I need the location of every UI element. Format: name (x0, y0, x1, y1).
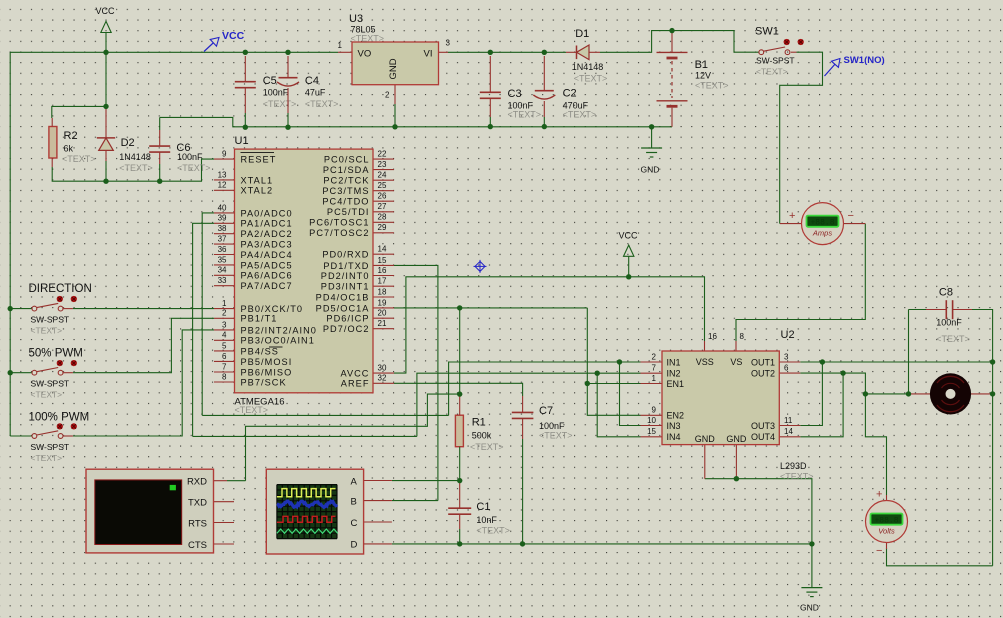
svg-text:GND: GND (641, 165, 660, 175)
svg-text:14: 14 (784, 427, 793, 436)
svg-text:+: + (789, 210, 795, 222)
svg-text:27: 27 (378, 202, 387, 211)
wire C7 bottom to ground rail (522, 439, 524, 544)
U1 left pin stubs (214, 158, 235, 160)
oscilloscope trace C red square wave (277, 516, 336, 522)
svg-text:35: 35 (218, 255, 227, 264)
capacitor C4 electrolytic (279, 77, 298, 79)
wire R1 top branch to terminal RXD riser (246, 394, 460, 481)
resistor R1 500k (455, 415, 463, 447)
svg-text:PA6/ADC6: PA6/ADC6 (241, 271, 293, 281)
svg-text:VS: VS (730, 357, 742, 367)
wire OUT2 node to motor left (843, 373, 909, 394)
svg-text:40: 40 (218, 203, 227, 212)
svg-text:<TEXT>: <TEXT> (695, 81, 729, 91)
wire rail to DIRECTION switch (10, 308, 32, 310)
svg-text:C: C (351, 518, 358, 529)
svg-text:PB1/T1: PB1/T1 (241, 314, 278, 324)
ground symbol top (641, 147, 662, 149)
wire ammeter to U2 VS pin (736, 224, 865, 341)
wire EN1 branch (587, 383, 640, 385)
wire OUT1 line to right rail (800, 361, 992, 363)
svg-text:26: 26 (378, 192, 387, 201)
svg-text:32: 32 (378, 374, 387, 383)
wire SW1 to ammeter (780, 52, 823, 223)
wire C1 bottom to ground rail (459, 529, 461, 544)
wire D2 bottom to rail (105, 161, 107, 181)
svg-text:GND: GND (695, 434, 716, 444)
svg-text:A: A (351, 476, 358, 487)
oscilloscope trace A yellow square wave (277, 489, 336, 497)
power flag VCC top-left (101, 21, 111, 32)
net label VCC blue (204, 38, 219, 52)
ammeter stubs (780, 223, 802, 225)
svg-text:SW-SPST: SW-SPST (31, 379, 70, 389)
svg-text:100% PWM: 100% PWM (29, 412, 90, 424)
diode D2 (105, 107, 107, 138)
C8 red leads (926, 309, 946, 311)
U1 right pin stubs (373, 158, 394, 160)
svg-text:PC0/SCL: PC0/SCL (324, 155, 370, 165)
wire VCC symbol lead (105, 33, 107, 53)
switch SW1 (759, 50, 764, 55)
svg-text:PD1/TXD: PD1/TXD (323, 261, 369, 271)
wire OUT2 line (800, 372, 843, 374)
svg-text:17: 17 (378, 277, 387, 286)
svg-text:<TEXT>: <TEXT> (177, 163, 211, 173)
svg-text:C3: C3 (508, 88, 522, 100)
svg-text:100nF: 100nF (177, 152, 203, 162)
wire left VCC rail vertical (9, 52, 11, 436)
svg-text:SW1: SW1 (755, 26, 779, 38)
wire C7 top to AREF line (394, 383, 523, 396)
svg-text:SW-SPST: SW-SPST (31, 442, 70, 452)
wire IN2/IN4 tie riser (597, 373, 640, 437)
wire TXD riser pin15 to scope B (394, 265, 438, 500)
svg-text:B1: B1 (695, 59, 708, 71)
svg-text:<TEXT>: <TEXT> (470, 442, 504, 452)
svg-text:SW-SPST: SW-SPST (756, 55, 795, 65)
ammeter (802, 203, 844, 245)
oscilloscope trace D green zigzag (277, 529, 338, 533)
svg-text:23: 23 (378, 160, 387, 169)
svg-text:B: B (351, 496, 357, 507)
svg-text:100nF: 100nF (263, 88, 289, 98)
capacitor C3 (480, 91, 501, 93)
U3 pin stubs (338, 51, 352, 53)
svg-text:VO: VO (358, 49, 372, 60)
capacitor C8 horizontal (945, 300, 947, 319)
svg-text:DIRECTION: DIRECTION (29, 283, 92, 295)
svg-text:PD7/OC2: PD7/OC2 (323, 324, 370, 334)
svg-text:SW-SPST: SW-SPST (31, 315, 70, 325)
svg-text:24: 24 (378, 171, 387, 180)
svg-text:PD2/INT0: PD2/INT0 (321, 271, 370, 281)
motor stubs (910, 393, 931, 395)
svg-text:PA3/ADC3: PA3/ADC3 (241, 240, 293, 250)
svg-text:PD5/OC1A: PD5/OC1A (316, 303, 370, 313)
svg-text:2: 2 (652, 352, 657, 361)
wire 50% PWM to PB1 (73, 318, 214, 372)
wire voltmeter minus to right rail (887, 548, 993, 566)
svg-text:IN3: IN3 (667, 421, 681, 431)
svg-text:PC2/TCK: PC2/TCK (323, 176, 369, 186)
svg-text:PA0/ADC0: PA0/ADC0 (241, 208, 293, 218)
svg-text:IN2: IN2 (667, 369, 681, 379)
svg-text:OUT2: OUT2 (751, 369, 775, 379)
wire junction drop to R2/D2 (105, 52, 107, 107)
svg-text:<TEXT>: <TEXT> (31, 326, 63, 336)
switch 50% PWM (32, 370, 37, 375)
svg-text:PB5/MOSI: PB5/MOSI (241, 357, 293, 367)
wire C8 left lead green (909, 309, 927, 311)
svg-text:−: − (876, 545, 882, 557)
capacitor C5 (235, 81, 256, 83)
svg-text:39: 39 (218, 214, 227, 223)
svg-text:VI: VI (424, 49, 433, 60)
svg-text:34: 34 (218, 266, 227, 275)
oscilloscope (266, 469, 363, 554)
svg-text:7: 7 (222, 362, 227, 371)
U2 bottom GND stubs (704, 445, 706, 479)
wire IN2 feeder riser (417, 373, 641, 436)
svg-text:1: 1 (222, 299, 227, 308)
svg-text:PA2/ADC2: PA2/ADC2 (241, 229, 293, 239)
svg-text:L293D: L293D (780, 461, 807, 471)
svg-text:U1: U1 (235, 135, 249, 147)
wire bottom ground rail (392, 543, 812, 545)
svg-text:GND: GND (726, 434, 747, 444)
wire PA0/TXD cross line (202, 414, 448, 416)
svg-text:D: D (351, 540, 358, 551)
wire scope channel A to R1 bottom / C1 (392, 480, 460, 482)
svg-text:11: 11 (784, 416, 793, 425)
svg-text:<TEXT>: <TEXT> (305, 99, 339, 109)
svg-text:IN1: IN1 (667, 357, 681, 367)
svg-text:100nF: 100nF (539, 421, 565, 431)
svg-text:22: 22 (378, 150, 387, 159)
U2 right pin stubs (779, 361, 800, 363)
svg-text:XTAL1: XTAL1 (241, 175, 274, 185)
svg-text:21: 21 (378, 319, 387, 328)
svg-text:CTS: CTS (188, 540, 207, 551)
svg-text:29: 29 (378, 223, 387, 232)
power flag VCC middle (624, 245, 634, 256)
svg-text:19: 19 (378, 298, 387, 307)
svg-text:PC6/TOSC1: PC6/TOSC1 (309, 218, 369, 228)
svg-text:14: 14 (378, 245, 387, 254)
svg-text:+88.8: +88.8 (874, 517, 898, 526)
svg-text:PD3/INT1: PD3/INT1 (321, 282, 370, 292)
svg-text:PB3/OC0/AIN1: PB3/OC0/AIN1 (241, 336, 315, 346)
svg-text:+88.8: +88.8 (810, 219, 834, 228)
svg-text:16: 16 (708, 332, 717, 341)
svg-text:4: 4 (222, 331, 227, 340)
svg-text:3: 3 (446, 39, 451, 48)
svg-text:<TEXT>: <TEXT> (563, 110, 597, 120)
svg-text:PA5/ADC5: PA5/ADC5 (241, 260, 293, 270)
wire PD5/OC1A line to EN riser (394, 307, 587, 309)
wire IN1/IN3 tie riser (620, 362, 641, 426)
svg-text:47uF: 47uF (305, 88, 326, 98)
svg-text:PC5/TDI: PC5/TDI (327, 207, 370, 217)
wire U2 GND bus to ground (705, 479, 812, 588)
oscilloscope pin stubs (364, 480, 392, 482)
wire IN1 feeder riser (449, 362, 641, 415)
wire D1 anode to battery corner (600, 31, 759, 53)
svg-text:D1: D1 (575, 28, 589, 40)
svg-text:500k: 500k (472, 431, 492, 441)
wire D1 cathode to C3/C2/U3 pin3 (448, 51, 566, 53)
battery B1 (671, 31, 673, 53)
svg-text:2: 2 (385, 91, 390, 100)
svg-text:EN2: EN2 (667, 411, 685, 421)
svg-text:GND: GND (800, 603, 819, 613)
voltage regulator U3 78L05 (352, 42, 439, 85)
virtual terminal (86, 469, 214, 553)
svg-text:16: 16 (378, 266, 387, 275)
svg-text:<TEXT>: <TEXT> (351, 34, 385, 44)
svg-text:C2: C2 (563, 88, 577, 100)
motor (930, 373, 971, 414)
ground symbol bottom (801, 587, 822, 589)
svg-text:R2: R2 (64, 130, 78, 142)
svg-text:2: 2 (222, 309, 227, 318)
svg-text:5: 5 (222, 341, 227, 350)
svg-text:8: 8 (222, 372, 227, 381)
svg-text:PA4/ADC4: PA4/ADC4 (241, 250, 293, 260)
svg-text:VCC: VCC (96, 6, 116, 16)
svg-text:C1: C1 (476, 501, 490, 513)
wire C8 left drop (908, 310, 910, 394)
svg-text:OUT4: OUT4 (751, 432, 775, 442)
wire PA1 to IN2 feeder line (193, 435, 417, 437)
U2 left pin stubs (641, 361, 663, 363)
svg-text:VSS: VSS (696, 357, 714, 367)
svg-text:3: 3 (784, 352, 789, 361)
wire motor-left node to voltmeter plus (865, 394, 886, 495)
svg-text:<TEXT>: <TEXT> (756, 67, 788, 77)
wire rail to 50% PWM switch (10, 372, 32, 374)
svg-text:+: + (876, 489, 882, 501)
svg-text:PB4/SS: PB4/SS (241, 346, 279, 356)
svg-text:TXD: TXD (188, 498, 207, 509)
svg-text:50% PWM: 50% PWM (29, 347, 83, 359)
capacitor C7 (512, 411, 534, 413)
wire VCC top rail (10, 51, 338, 53)
svg-text:15: 15 (378, 256, 387, 265)
wire PA1 riser (193, 223, 214, 436)
origin marker blue (474, 260, 487, 273)
wire OUT2/OUT4 tie riser (800, 373, 843, 437)
wire C6 top lead (159, 117, 161, 130)
switch DIRECTION (32, 306, 37, 311)
svg-text:18: 18 (378, 287, 387, 296)
terminal pin stubs (214, 480, 228, 482)
svg-text:PB7/SCK: PB7/SCK (241, 377, 287, 387)
svg-text:GND: GND (388, 58, 399, 79)
svg-text:−: − (848, 210, 854, 222)
wire DIRECTION to PB0 (73, 308, 214, 310)
svg-text:PB0/XCK/T0: PB0/XCK/T0 (241, 304, 304, 314)
switch 100% PWM (32, 434, 37, 439)
wire branch to R2 (52, 106, 106, 118)
svg-text:20: 20 (378, 309, 387, 318)
svg-text:RESET: RESET (241, 155, 277, 165)
svg-text:PC3/TMS: PC3/TMS (322, 186, 369, 196)
capacitor C6 (149, 145, 170, 147)
svg-text:C5: C5 (263, 75, 277, 87)
svg-text:38: 38 (218, 224, 227, 233)
wire scope channel B lead (392, 500, 438, 502)
svg-text:PD0/RXD: PD0/RXD (322, 250, 369, 260)
svg-text:PB6/MISO: PB6/MISO (241, 367, 293, 377)
U2 top pin stubs VSS VS (704, 341, 706, 351)
svg-text:13: 13 (218, 170, 227, 179)
wire PA0 riser (202, 213, 214, 416)
diode D1 (566, 51, 577, 53)
svg-text:15: 15 (647, 427, 656, 436)
svg-text:3: 3 (222, 320, 227, 329)
wire battery minus riser / GND drop (651, 127, 653, 148)
svg-text:<TEXT>: <TEXT> (119, 163, 153, 173)
svg-text:AVCC: AVCC (340, 369, 369, 379)
svg-text:12: 12 (218, 181, 227, 190)
wire OUT1/OUT3 tie riser (800, 362, 822, 426)
svg-text:PB2/INT2/AIN0: PB2/INT2/AIN0 (241, 325, 317, 335)
svg-text:<TEXT>: <TEXT> (235, 405, 269, 415)
svg-text:7: 7 (652, 364, 657, 373)
svg-text:PA1/ADC1: PA1/ADC1 (241, 219, 293, 229)
resistor R2 (49, 127, 57, 159)
svg-text:8: 8 (740, 332, 745, 341)
svg-text:1N4148: 1N4148 (119, 152, 151, 162)
svg-text:6: 6 (222, 352, 227, 361)
driver U2 L293D (662, 351, 779, 445)
svg-text:PC4/TDO: PC4/TDO (322, 197, 369, 207)
svg-text:33: 33 (218, 276, 227, 285)
svg-text:6k: 6k (64, 144, 74, 154)
svg-text:C7: C7 (539, 405, 553, 417)
svg-text:37: 37 (218, 235, 227, 244)
svg-text:<TEXT>: <TEXT> (780, 472, 814, 482)
svg-text:RXD: RXD (187, 477, 207, 488)
wire terminal RXD lead (227, 480, 246, 482)
svg-text:<TEXT>: <TEXT> (476, 526, 510, 536)
svg-text:<TEXT>: <TEXT> (574, 74, 608, 84)
microcontroller U1 ATMEGA16 (235, 149, 374, 393)
wire U3 pin2 to ground rail (394, 104, 396, 127)
wire ground rail under U3 (160, 117, 672, 126)
svg-text:PC7/TOSC2: PC7/TOSC2 (309, 228, 369, 238)
oscilloscope trace B blue noisy wave (277, 501, 337, 507)
voltmeter stubs (886, 495, 888, 502)
svg-text:12V: 12V (695, 70, 711, 80)
svg-text:<TEXT>: <TEXT> (508, 109, 542, 119)
wire C8 right lead to right rail (972, 310, 993, 566)
svg-text:PA7/ADC7: PA7/ADC7 (241, 281, 293, 291)
svg-text:IN4: IN4 (667, 432, 681, 442)
svg-text:6: 6 (784, 364, 789, 373)
svg-text:PC1/SDA: PC1/SDA (323, 165, 370, 175)
svg-text:10nF: 10nF (476, 515, 497, 525)
wire VCC symbol 2 lead (628, 256, 630, 277)
svg-text:C8: C8 (939, 286, 953, 298)
svg-text:RTS: RTS (188, 518, 207, 529)
oscilloscope screen grid (276, 485, 278, 539)
wire RESET rail (52, 159, 214, 181)
svg-text:<TEXT>: <TEXT> (62, 154, 96, 164)
svg-text:PD6/ICP: PD6/ICP (326, 314, 369, 324)
svg-text:OUT1: OUT1 (751, 357, 775, 367)
wire EN riser to EN1/EN2 (587, 308, 640, 415)
junction dots (103, 50, 108, 55)
svg-text:1N4148: 1N4148 (572, 62, 604, 72)
svg-text:9: 9 (652, 406, 657, 415)
svg-text:OUT3: OUT3 (751, 421, 775, 431)
svg-text:R1: R1 (472, 417, 486, 429)
svg-text:<TEXT>: <TEXT> (263, 99, 297, 109)
svg-text:9: 9 (222, 150, 227, 159)
svg-text:Amps: Amps (812, 229, 832, 238)
svg-text:SW1(NO): SW1(NO) (844, 55, 885, 66)
wire PD5 to R1 riser (459, 308, 461, 395)
svg-text:U2: U2 (781, 329, 795, 341)
voltmeter (866, 501, 908, 543)
svg-text:<TEXT>: <TEXT> (539, 431, 573, 441)
svg-text:U3: U3 (349, 13, 363, 25)
svg-text:30: 30 (378, 364, 387, 373)
svg-text:D2: D2 (121, 137, 135, 149)
svg-text:36: 36 (218, 245, 227, 254)
svg-text:Volts: Volts (878, 526, 895, 535)
wire C6 bottom to rail (159, 164, 161, 181)
svg-text:25: 25 (378, 181, 387, 190)
wire rail to 100% PWM switch (10, 435, 32, 437)
svg-text:VCC: VCC (222, 30, 245, 42)
svg-text:VCC: VCC (619, 230, 639, 240)
svg-text:AREF: AREF (341, 379, 370, 389)
wire AVCC riser to VCC rail (394, 277, 705, 373)
svg-text:C4: C4 (305, 75, 319, 87)
svg-text:28: 28 (378, 213, 387, 222)
svg-text:PD4/OC1B: PD4/OC1B (316, 292, 370, 302)
svg-text:100nF: 100nF (936, 317, 962, 327)
capacitor C1 (448, 507, 471, 509)
svg-text:1: 1 (338, 41, 343, 50)
svg-text:EN1: EN1 (667, 379, 685, 389)
svg-text:<TEXT>: <TEXT> (31, 390, 63, 400)
wire 100% PWM to PB2 (73, 330, 214, 436)
svg-text:10: 10 (647, 416, 656, 425)
capacitor C2 electrolytic (535, 90, 554, 92)
svg-text:1: 1 (652, 374, 657, 383)
svg-text:<TEXT>: <TEXT> (31, 453, 63, 463)
net label SW1(NO) blue (825, 59, 841, 77)
svg-text:<TEXT>: <TEXT> (936, 334, 970, 344)
svg-text:XTAL2: XTAL2 (241, 186, 274, 196)
